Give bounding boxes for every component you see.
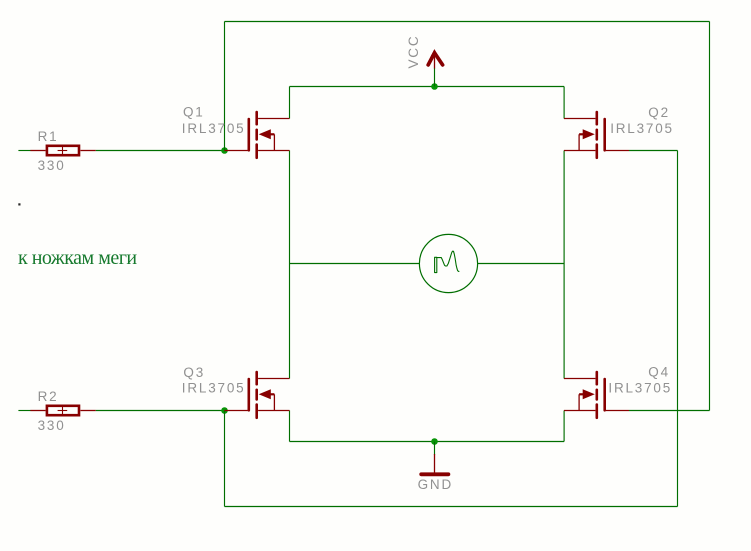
stray period mark	[18, 203, 20, 205]
wire VCC stub	[434, 68, 436, 87]
wire junction J1 up	[224, 22, 226, 151]
svg-text:IRL3705: IRL3705	[610, 121, 674, 136]
svg-text:Q4: Q4	[648, 365, 670, 380]
wire motor left	[290, 263, 420, 265]
resistor R1	[30, 146, 95, 155]
svg-text:330: 330	[38, 158, 66, 173]
wire left bridge mid	[289, 151, 291, 379]
svg-text:Q3: Q3	[183, 365, 205, 380]
wire bottom rail	[225, 506, 678, 508]
wire R2 to junction	[96, 410, 225, 412]
wire R1 left stub	[18, 150, 30, 152]
svg-text:R2: R2	[38, 389, 59, 404]
wire inner right up	[677, 151, 679, 507]
svg-text:к ножкам меги: к ножкам меги	[18, 247, 137, 269]
node junction J1	[221, 147, 228, 154]
wire right outer down	[709, 22, 711, 411]
wire VCC rail	[290, 86, 565, 88]
svg-text:IRL3705: IRL3705	[182, 381, 246, 396]
transistor Q1	[225, 112, 290, 158]
node VCC junction	[431, 83, 438, 90]
motor M1 circle	[419, 234, 477, 292]
svg-text:VCC: VCC	[406, 35, 421, 69]
transistor Q4	[564, 372, 629, 418]
transistor Q3	[225, 372, 290, 418]
wire R2 left stub	[18, 410, 30, 412]
wire GND rail	[290, 441, 565, 443]
wire Q1 drain to rail	[289, 87, 291, 119]
wire right bridge mid	[563, 151, 565, 379]
node GND junction	[431, 438, 438, 445]
svg-text:R1: R1	[38, 129, 59, 144]
wire junction J2 down	[224, 411, 226, 507]
node junction J2	[221, 407, 228, 414]
wire R1 to junction	[96, 150, 225, 152]
svg-text:Q2: Q2	[648, 105, 670, 120]
transistor Q2	[564, 112, 629, 158]
resistor R2	[30, 406, 95, 415]
supply VCC symbol	[428, 49, 442, 68]
wire to Q4 gate	[629, 410, 710, 412]
wire Q3 source to gnd rail	[289, 411, 291, 442]
wire GND stub	[434, 442, 436, 456]
svg-text:IRL3705: IRL3705	[608, 381, 672, 396]
ground GND symbol	[421, 454, 448, 474]
wire Q4 source to gnd rail	[563, 411, 565, 442]
motor M1 squiggle	[435, 251, 459, 272]
svg-text:GND: GND	[418, 477, 453, 492]
wire to Q2 gate	[629, 150, 678, 152]
wire top rail	[225, 21, 710, 23]
svg-text:330: 330	[38, 418, 66, 433]
svg-text:Q1: Q1	[183, 105, 205, 120]
wire motor right	[478, 263, 564, 265]
svg-text:IRL3705: IRL3705	[182, 121, 246, 136]
wire Q2 drain to rail	[563, 87, 565, 119]
